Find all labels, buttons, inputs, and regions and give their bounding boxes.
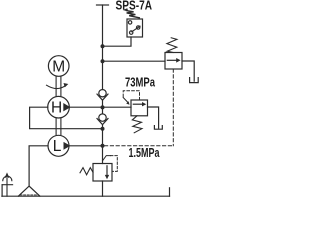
unloading valve V3 spring (80, 168, 93, 175)
pilot line dashed to unloader junction (103, 145, 172, 147)
check valve C2 seat (97, 119, 108, 125)
wire L pump discharge (69, 145, 103, 147)
check valve C2 ball (99, 114, 106, 121)
unloading valve V3 body (93, 164, 112, 182)
shaft H to L (56, 118, 61, 135)
wire rail to relief valve (103, 60, 166, 62)
node P outlet port marker (97, 4, 109, 6)
wire V2 outlet to tank (148, 107, 159, 128)
tank symbol T1 (190, 78, 199, 83)
relief valve V2 spring (132, 116, 142, 133)
pressure switch lever (132, 26, 140, 32)
pressure switch electric zigzag arrow (127, 11, 140, 18)
pump H triangle (63, 103, 70, 111)
svg-text:73MPa: 73MPa (125, 75, 156, 89)
svg-text:SPS-7A: SPS-7A (116, 0, 153, 13)
pressure switch contact circle right (137, 26, 140, 29)
shaft M to H (56, 76, 61, 96)
pilot line dashed from V1 down (172, 69, 174, 146)
relief valve V1 body (165, 53, 182, 70)
pump L triangle (64, 142, 71, 150)
svg-text:1.5MPa: 1.5MPa (129, 146, 161, 160)
wire pressure switch branch (103, 37, 132, 46)
wire column C1 to C2 (102, 100, 104, 114)
motor M circle (48, 56, 69, 77)
check valve C1 ball (99, 90, 106, 97)
check valve C1 seat (97, 94, 108, 100)
node junction H discharge (101, 105, 105, 109)
rotation arrow (47, 85, 66, 88)
wire H pump suction U line (30, 107, 103, 129)
tank line right tick (169, 188, 171, 196)
svg-text:L: L (53, 138, 62, 155)
relief valve V1 spring (167, 38, 177, 53)
tank line left stub (1, 185, 3, 197)
tank symbol T2 (154, 126, 162, 130)
wire main column upper (102, 5, 104, 90)
svg-text:M: M (52, 58, 65, 75)
wire L pump suction down to strainer (29, 146, 48, 186)
wire V3 drain to tank (102, 181, 104, 196)
node junction suction tee (101, 127, 105, 131)
relief valve V1 arrow (167, 59, 177, 61)
air breather (6, 175, 8, 196)
node junction at switch tee (101, 44, 105, 48)
pressure switch contact circle lower-left (130, 31, 133, 34)
node junction at rail tee (101, 59, 105, 63)
pump H circle (48, 96, 70, 118)
relief valve V2 pilot dashed (123, 91, 139, 100)
unloading valve V3 arrow (106, 166, 108, 176)
unloading valve V3 pilot loop (103, 156, 111, 161)
wire H pump discharge to relief V2 inlet (69, 106, 131, 108)
wire V1 outlet to tank (182, 61, 194, 81)
svg-text:H: H (51, 99, 62, 116)
relief valve V2 73MPa body (131, 100, 148, 116)
pressure switch contact circle upper-left (128, 21, 131, 24)
relief valve V2 arrow (133, 103, 143, 105)
pressure switch SPS-7A body (127, 19, 143, 37)
tank line (2, 195, 170, 197)
pump L circle (48, 135, 69, 156)
wire column C2 down (102, 125, 104, 164)
suction strainer (18, 186, 40, 196)
node junction L discharge (101, 144, 105, 148)
